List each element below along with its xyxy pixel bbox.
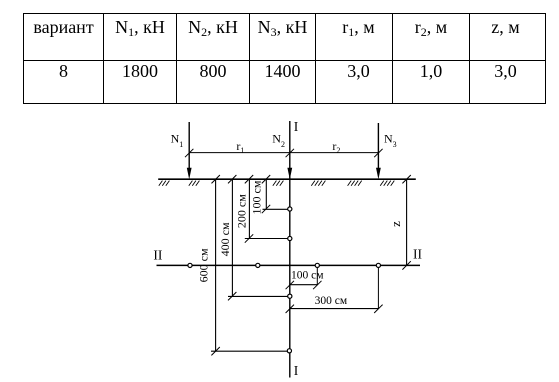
- extension line at x=378: [377, 265, 379, 308]
- point on axis I at 600 cm depth: [287, 349, 291, 353]
- depth level line 200 cm: [245, 238, 290, 240]
- ground hatching group 2: [189, 181, 200, 186]
- tick left on 300 cm dimension: [286, 305, 294, 313]
- extension line at x=317: [316, 265, 318, 284]
- svg-text:300 см: 300 см: [315, 295, 348, 307]
- point on axis II left: [256, 263, 260, 267]
- svg-text:II: II: [153, 247, 162, 262]
- tick at 200 level: [245, 234, 253, 242]
- svg-text:100 см: 100 см: [250, 180, 264, 214]
- svg-text:II: II: [413, 247, 422, 262]
- tick at N3 on r dimension: [374, 149, 382, 157]
- depth level line 400 cm: [228, 295, 290, 297]
- dimension line 200 cm vertical: [248, 179, 250, 238]
- ground hatching group 4: [311, 181, 325, 186]
- tick right on 300 cm dimension: [374, 305, 382, 313]
- force N1 arrow: [187, 122, 192, 179]
- dimension line 100 cm below axis II: [290, 284, 318, 286]
- ground hatching group 5: [348, 181, 362, 186]
- svg-text:I: I: [294, 363, 299, 378]
- tick at 100 level: [262, 205, 270, 213]
- ground hatching group 6: [380, 181, 394, 186]
- tick at 400 level: [228, 292, 236, 300]
- svg-text:600 см: 600 см: [197, 248, 211, 282]
- dimension line 600 cm vertical: [215, 179, 217, 351]
- svg-text:N2: N2: [272, 131, 285, 148]
- svg-text:I: I: [294, 119, 299, 134]
- tick at top of 600 line: [212, 175, 220, 183]
- tick at top of z line: [402, 175, 410, 183]
- svg-text:N1: N1: [171, 132, 184, 149]
- data table: variant parameters: [23, 13, 546, 104]
- force N3 arrow: [376, 123, 381, 179]
- ground hatching group 1: [159, 181, 170, 186]
- depth level line 100 cm: [263, 208, 290, 210]
- tick at top of 400 line: [228, 175, 236, 183]
- dimension line r1 r2: [189, 152, 378, 154]
- svg-text:200 см: 200 см: [235, 194, 249, 228]
- tick at N1 on r dimension: [185, 149, 193, 157]
- point on axis I at 100 cm depth: [288, 207, 292, 211]
- tick right on 100 cm dimension: [313, 281, 321, 289]
- dimension line 300 cm below axis II: [290, 308, 379, 310]
- tick at top of 100 line: [262, 175, 270, 183]
- svg-text:400 см: 400 см: [218, 222, 232, 256]
- dimension line z vertical: [406, 179, 408, 265]
- tick left on 100 cm dimension: [286, 281, 294, 289]
- point on axis I at 400 cm depth: [288, 294, 292, 298]
- ground hatching group 3: [273, 181, 284, 186]
- svg-text:N3: N3: [384, 132, 397, 149]
- axis I vertical line: [289, 121, 291, 378]
- point on axis II far left: [188, 263, 192, 267]
- tick at 600 level: [211, 347, 219, 355]
- axis II horizontal line: [157, 264, 421, 266]
- ground surface line: [158, 178, 416, 180]
- force N2 arrowhead: [287, 168, 292, 180]
- tick at top of 200 line: [245, 175, 253, 183]
- dimension line 400 cm vertical: [231, 179, 233, 296]
- point on axis I at 200 cm depth: [288, 236, 292, 240]
- tick at z line on axis II: [402, 261, 410, 269]
- svg-text:r2: r2: [332, 139, 340, 155]
- point on axis II at 300 cm right: [376, 263, 380, 267]
- point on axis II at 100 cm right: [315, 263, 319, 267]
- depth level line 600 cm: [211, 350, 290, 352]
- svg-text:z: z: [388, 221, 403, 227]
- tick at N2 on r dimension: [286, 149, 294, 157]
- svg-text:r1: r1: [236, 139, 244, 155]
- dimension line 100 cm vertical: [265, 179, 267, 209]
- svg-text:100 см: 100 см: [291, 269, 324, 281]
